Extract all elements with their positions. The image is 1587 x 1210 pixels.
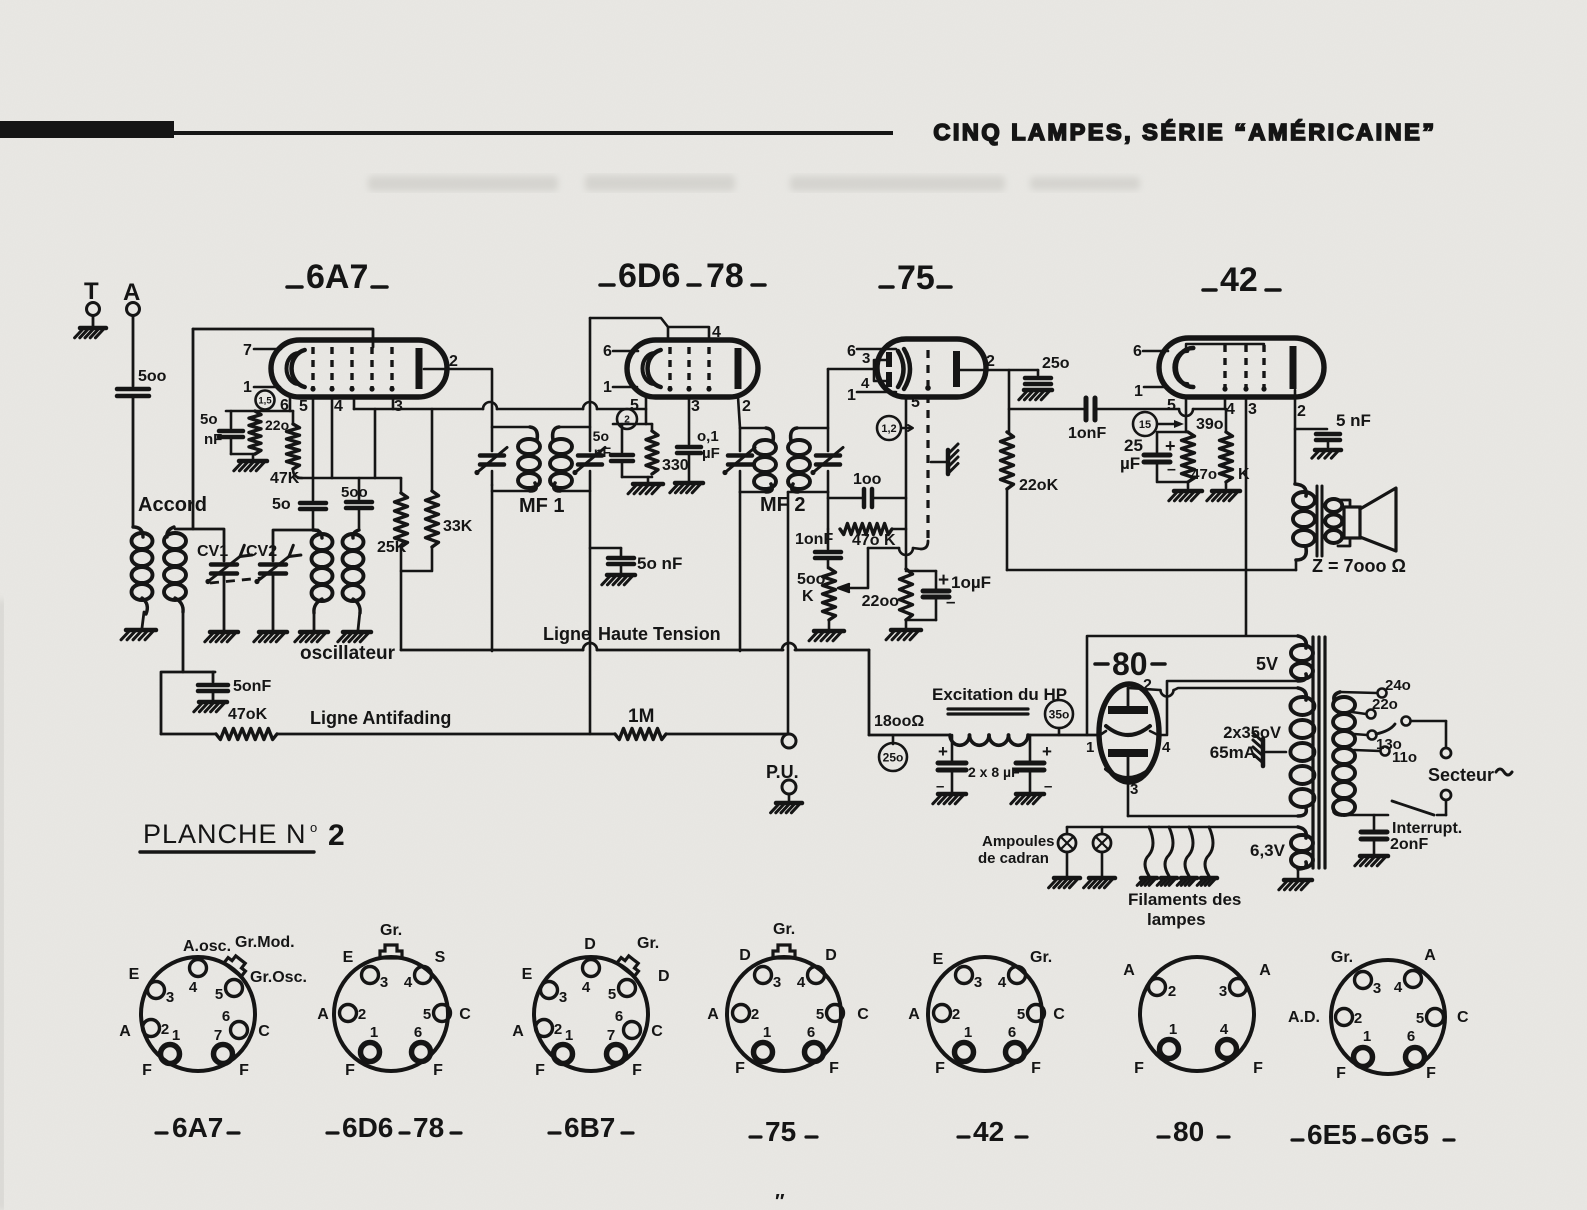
svg-text:A: A: [1259, 962, 1271, 979]
svg-text:F: F: [632, 1062, 642, 1079]
resistor 390 cathode: [1182, 432, 1195, 482]
socket 75: [727, 957, 841, 1071]
svg-text:Gr.: Gr.: [1331, 949, 1353, 966]
svg-text:2: 2: [986, 353, 995, 370]
top rule thin segment: [174, 131, 893, 135]
svg-text:5 nF: 5 nF: [1336, 411, 1371, 430]
svg-text:A: A: [317, 1006, 329, 1023]
svg-text:2: 2: [742, 398, 751, 415]
svg-text:F: F: [345, 1062, 355, 1079]
power transformer primary winding: [1334, 692, 1340, 700]
svg-text:5: 5: [423, 1006, 431, 1023]
capacitor 20nF mains: [1373, 815, 1376, 829]
rail MF2 secondary bottom: [788, 491, 828, 494]
svg-text:5: 5: [215, 986, 223, 1003]
rectifier output wire: [1059, 734, 1100, 736]
svg-text:6G5: 6G5: [1376, 1119, 1429, 1150]
tube 42: [1159, 338, 1324, 397]
svg-text:2onF: 2onF: [1390, 836, 1428, 853]
svg-text:o,1: o,1: [697, 428, 719, 445]
svg-text:P.U.: P.U.: [766, 762, 799, 782]
svg-text:2: 2: [1297, 403, 1306, 420]
svg-text:11o: 11o: [1392, 749, 1417, 766]
pin3 wire to HV bottom: [1127, 780, 1130, 816]
svg-text:Filaments des: Filaments des: [1128, 890, 1241, 909]
svg-text:5o nF: 5o nF: [637, 554, 682, 573]
socket 6B7: [534, 957, 648, 1071]
coupling line to 42: [1009, 408, 1083, 411]
rail MF1 primary bottom: [492, 490, 531, 493]
rail MF2 secondary top: [796, 427, 828, 430]
wire 47K to rail 478: [293, 469, 302, 478]
capacitor 10uF electrolytic: [906, 570, 936, 573]
svg-text:C: C: [459, 1006, 471, 1023]
svg-text:C: C: [857, 1006, 869, 1023]
svg-text:1: 1: [763, 1024, 771, 1041]
svg-text:47oK: 47oK: [228, 706, 268, 723]
svg-text:2 x 8 µF: 2 x 8 µF: [968, 764, 1020, 780]
output transformer secondary: [1325, 499, 1342, 512]
svg-text:6E5: 6E5: [1307, 1119, 1357, 1150]
svg-text:3: 3: [166, 989, 174, 1006]
plate bottom 80: [1108, 749, 1148, 757]
svg-text:A.osc.: A.osc.: [183, 938, 231, 955]
ground 2200: [905, 620, 908, 628]
svg-text:78: 78: [706, 257, 744, 295]
svg-text:F: F: [829, 1060, 839, 1077]
svg-text:MF 2: MF 2: [760, 494, 806, 516]
output transformer primary: [1295, 484, 1306, 496]
tube 75: [877, 339, 986, 397]
svg-text:6: 6: [615, 1008, 623, 1025]
ground PU: [776, 801, 802, 806]
svg-text:6,3V: 6,3V: [1250, 841, 1286, 860]
svg-text:µF: µF: [702, 445, 720, 462]
svg-text:4: 4: [582, 979, 591, 996]
svg-text:1: 1: [1169, 1021, 1177, 1038]
svg-text:A: A: [1123, 962, 1135, 979]
svg-text:25o: 25o: [1042, 355, 1070, 372]
socket 6A7: [141, 957, 255, 1071]
tap 220: [1352, 712, 1366, 714]
svg-text:Gr.: Gr.: [1030, 949, 1052, 966]
coil Accord secondary: [167, 527, 174, 537]
wire 42 cathode down: [1185, 397, 1188, 432]
svg-text:F: F: [142, 1062, 152, 1079]
svg-text:5o: 5o: [593, 428, 609, 444]
filament supply line: [1067, 826, 1298, 829]
label socket 42: [958, 1135, 969, 1138]
trimmer MF2 primary: [739, 428, 742, 451]
resistor 2200 cathode 75: [905, 548, 907, 569]
svg-text:4: 4: [404, 974, 413, 991]
ground 500K: [828, 620, 831, 629]
svg-text:K: K: [802, 588, 814, 605]
wire diode line to 75: [828, 368, 874, 371]
label tube 6D6 78: [600, 283, 614, 287]
label socket 80: [1158, 1135, 1169, 1138]
wire screen pin3 down: [1245, 397, 1248, 635]
cathode 75: [898, 351, 904, 387]
svg-text:3: 3: [1373, 980, 1381, 997]
svg-text:1: 1: [1134, 383, 1143, 400]
selector wiper: [1376, 724, 1395, 734]
ground cathode 6D6: [633, 482, 663, 487]
capacitor 2x8uF left: [951, 735, 954, 760]
svg-text:F: F: [535, 1062, 545, 1079]
svg-text:E: E: [343, 949, 354, 966]
HT bus ligne haute tension: [401, 649, 583, 652]
svg-text:F: F: [1134, 1060, 1144, 1077]
svg-text:Excitation du HP: Excitation du HP: [932, 685, 1067, 704]
svg-text:6A7: 6A7: [172, 1112, 223, 1143]
svg-text:4: 4: [334, 398, 343, 415]
svg-text:3: 3: [1130, 781, 1138, 798]
output transformer core: [1316, 486, 1319, 556]
mains terminal bottom: [1441, 790, 1451, 800]
svg-text:1: 1: [565, 1027, 573, 1044]
svg-text:–: –: [1167, 461, 1176, 478]
ground oscillator left: [300, 630, 328, 635]
tube 6A7: [271, 340, 447, 397]
svg-text:7: 7: [214, 1027, 222, 1044]
svg-text:T: T: [84, 278, 99, 305]
ground under T: [92, 316, 95, 327]
svg-text:nF: nF: [594, 444, 612, 460]
svg-text:4: 4: [797, 974, 806, 991]
svg-text:1: 1: [172, 1027, 180, 1044]
svg-text:47K: 47K: [270, 470, 300, 487]
wire 25K 33K common to HT bus: [401, 547, 432, 571]
ground CV2: [259, 630, 287, 635]
rail MF1 secondary bottom: [559, 490, 590, 493]
ground 0.1uF: [675, 481, 703, 486]
svg-text:1onF: 1onF: [1068, 425, 1106, 442]
svg-text:1: 1: [603, 379, 612, 396]
wire A down to C500: [132, 316, 135, 386]
svg-text:F: F: [433, 1062, 443, 1079]
svg-text:5: 5: [1167, 397, 1176, 414]
svg-text:+: +: [1042, 742, 1052, 761]
svg-text:6: 6: [222, 1008, 230, 1025]
capacitor 50nF HT decoupling: [590, 547, 621, 550]
svg-text:3: 3: [691, 398, 700, 415]
mains terminal top: [1441, 748, 1451, 758]
wire CV1 to ground: [223, 574, 226, 630]
svg-text:3: 3: [1219, 983, 1227, 1000]
svg-text:6: 6: [603, 343, 612, 360]
grid box wire 6D6: [590, 318, 668, 327]
svg-text:+: +: [938, 742, 948, 761]
svg-text:6D6: 6D6: [342, 1112, 393, 1143]
wire 220K to B+ line: [1006, 489, 1009, 570]
svg-text:–: –: [946, 592, 955, 611]
wire osc left to ground: [313, 611, 316, 630]
rail oscillator grid y478: [298, 477, 401, 480]
svg-text:25: 25: [1124, 436, 1143, 455]
svg-text:Gr.: Gr.: [773, 921, 795, 938]
rail MF2 primary bottom: [740, 491, 767, 494]
diode plates bracket 75: [874, 360, 887, 381]
svg-text:Ligne Antifading: Ligne Antifading: [310, 708, 451, 728]
svg-text:2: 2: [161, 1021, 169, 1038]
tube 80 rectifier: [1099, 684, 1159, 782]
svg-text:A: A: [1424, 947, 1436, 964]
rail MF1 secondary top: [558, 426, 590, 429]
svg-text:Accord: Accord: [138, 494, 207, 516]
svg-text:7: 7: [607, 1027, 615, 1044]
svg-text:1: 1: [243, 379, 252, 396]
power transformer HV winding: [1298, 688, 1306, 700]
terminal PU top: [782, 734, 796, 748]
svg-text:1: 1: [1086, 739, 1094, 756]
svg-text:+: +: [938, 570, 949, 591]
svg-text:nF: nF: [204, 431, 222, 448]
svg-text:de cadran: de cadran: [978, 850, 1049, 867]
capacitor 5nF plate: [1295, 428, 1327, 431]
svg-text:3: 3: [773, 974, 781, 991]
wire Accord secondary top to grid line: [175, 329, 193, 529]
svg-text:4: 4: [1394, 979, 1403, 996]
suppressor tie 42: [1186, 344, 1264, 349]
svg-text:A: A: [707, 1006, 719, 1023]
svg-text:6: 6: [1008, 1024, 1016, 1041]
ground oscillator right: [343, 630, 371, 635]
resistor 220K: [1001, 432, 1014, 489]
svg-text:5: 5: [608, 986, 616, 1003]
svg-text:F: F: [735, 1060, 745, 1077]
ground side symbol 75 grid return: [931, 461, 946, 464]
svg-text:D: D: [584, 936, 596, 953]
svg-text:330: 330: [662, 457, 689, 474]
label tube 75: [880, 285, 893, 289]
page left edge scan shadow: [0, 600, 4, 1210]
svg-text:4: 4: [1226, 401, 1235, 418]
svg-text:35o: 35o: [1049, 707, 1070, 721]
coil MF2 primary: [766, 428, 773, 441]
svg-text:CV1: CV1: [197, 543, 228, 560]
wire 6D6 plate pin2 down: [738, 397, 740, 428]
svg-text:3: 3: [559, 989, 567, 1006]
tube filaments arcs: [1145, 827, 1153, 876]
svg-text:4: 4: [861, 375, 870, 392]
ground 390: [1187, 482, 1190, 488]
svg-text:4: 4: [1162, 739, 1171, 756]
wire CV2 to ground: [272, 574, 275, 630]
svg-text:Gr.Osc.: Gr.Osc.: [250, 969, 307, 986]
svg-text:1M: 1M: [628, 706, 654, 727]
circled value 1,5: [256, 391, 275, 410]
wire MF1 secondary return to antifading line: [589, 471, 592, 734]
svg-text:1,5: 1,5: [258, 395, 272, 406]
svg-text:65mA: 65mA: [1210, 743, 1256, 762]
svg-text:6: 6: [847, 343, 856, 360]
svg-text:5o: 5o: [200, 411, 218, 428]
svg-text:1: 1: [964, 1024, 972, 1041]
svg-text:C: C: [258, 1023, 270, 1040]
svg-text:42: 42: [973, 1116, 1004, 1147]
cathode RC bottom rail: [622, 476, 652, 479]
coil MF2 secondary: [791, 428, 797, 441]
svg-text:F: F: [1031, 1060, 1041, 1077]
svg-text:Z = 7ooo Ω: Z = 7ooo Ω: [1312, 556, 1406, 576]
wire CV2 top to oscillator rail: [273, 530, 318, 561]
svg-text:4: 4: [189, 979, 198, 996]
coil oscillator right winding: [353, 530, 359, 538]
svg-text:lampes: lampes: [1147, 910, 1206, 929]
gang dashed link CV1-CV2: [210, 578, 262, 583]
ground Accord primary: [126, 628, 156, 633]
svg-text:5: 5: [911, 394, 920, 411]
svg-text:75: 75: [765, 1116, 796, 1147]
svg-text:F: F: [239, 1062, 249, 1079]
svg-text:2: 2: [554, 1021, 562, 1038]
svg-text:18ooΩ: 18ooΩ: [874, 713, 924, 730]
resistor 470K diode load: [827, 492, 830, 529]
wire 50pF to osc coil: [312, 509, 315, 530]
svg-text:2: 2: [1354, 1010, 1362, 1027]
svg-text:A.D.: A.D.: [1288, 1009, 1320, 1026]
ground bias 6A7: [239, 459, 267, 464]
wire C500 to Accord primary: [132, 396, 135, 527]
svg-text:K: K: [1238, 466, 1250, 483]
svg-text:24o: 24o: [1385, 677, 1411, 694]
svg-text:47o K: 47o K: [852, 532, 896, 549]
svg-text:6B7: 6B7: [564, 1112, 615, 1143]
svg-text:80: 80: [1173, 1116, 1204, 1147]
svg-text:42: 42: [1220, 261, 1258, 299]
label socket 6E5 6G5: [1292, 1138, 1303, 1141]
svg-text:2: 2: [449, 353, 458, 370]
socket 42: [928, 957, 1042, 1071]
svg-text:F: F: [1336, 1065, 1346, 1082]
svg-text:5oo: 5oo: [138, 368, 167, 385]
rail MF2 primary top: [740, 427, 766, 430]
ground 50nF decoupling: [607, 573, 635, 578]
wire 6,3V to ground: [1297, 869, 1300, 878]
svg-text:4: 4: [1220, 1021, 1229, 1038]
wire screen 0.1uF: [688, 397, 691, 444]
svg-text:3: 3: [394, 398, 403, 415]
svg-text:25K: 25K: [377, 539, 407, 556]
svg-text:Interrupt.: Interrupt.: [1392, 820, 1462, 837]
speaker: [1344, 507, 1360, 538]
svg-text:E: E: [933, 951, 944, 968]
svg-text:3: 3: [1248, 401, 1257, 418]
ghost print-through band: [368, 175, 1140, 191]
svg-text:47o: 47o: [1191, 466, 1217, 483]
svg-text:A: A: [512, 1023, 524, 1040]
svg-text:5: 5: [1416, 1010, 1424, 1027]
svg-text:6A7: 6A7: [306, 258, 368, 296]
svg-text:1,2: 1,2: [881, 423, 896, 435]
svg-text:E: E: [129, 966, 140, 983]
svg-text:2: 2: [358, 1006, 366, 1023]
wire pin5 down to 50pF: [312, 397, 315, 478]
resistor 25K: [400, 478, 403, 493]
trimmer MF1 primary: [480, 453, 504, 458]
svg-text:CINQ LAMPES, SÉRIE “AMÉRICAINE: CINQ LAMPES, SÉRIE “AMÉRICAINE”: [933, 118, 1436, 145]
svg-text:3: 3: [974, 974, 982, 991]
svg-text:6: 6: [1133, 343, 1142, 360]
wire Accord secondary bottom to antifading: [161, 610, 183, 734]
svg-text:o: o: [310, 820, 317, 835]
wire pin3 to bus: [353, 397, 356, 409]
capacitor 10nF coupling: [1084, 398, 1089, 420]
wire to ground Accord primary: [142, 612, 144, 628]
ground 50nF antifading: [199, 700, 227, 705]
circled 350: [1045, 700, 1073, 728]
svg-text:1oµF: 1oµF: [951, 573, 991, 592]
bias rail 6A7: [226, 410, 293, 413]
svg-text:5onF: 5onF: [233, 678, 271, 695]
resistor 330 cathode: [651, 424, 654, 431]
svg-text:C: C: [651, 1023, 663, 1040]
label socket 75: [750, 1135, 761, 1138]
svg-text:22oK: 22oK: [1019, 477, 1059, 494]
svg-text:MF 1: MF 1: [519, 495, 565, 517]
wire 6D6 cathode pin5: [645, 397, 648, 424]
tap 130: [1354, 734, 1367, 735]
svg-text:25o: 25o: [883, 750, 904, 764]
wire MF2 secondary bottom to PU: [787, 492, 790, 734]
svg-text:15: 15: [1139, 419, 1151, 431]
label tube 80: [1095, 662, 1108, 666]
svg-text:″: ″: [775, 1191, 785, 1210]
coil Accord primary: [133, 527, 143, 537]
variable capacitor CV2: [260, 562, 286, 567]
label tube 6A7: [287, 285, 302, 289]
svg-text:oscillateur: oscillateur: [300, 643, 396, 664]
primary bottom wire: [1341, 814, 1342, 816]
svg-text:Secteur: Secteur: [1428, 765, 1494, 785]
svg-text:µF: µF: [1120, 454, 1140, 473]
label socket 6D6 78: [327, 1131, 338, 1134]
socket 6D6 78: [334, 957, 448, 1071]
resistor 33K: [431, 409, 434, 491]
wire osc right to ground: [358, 611, 360, 630]
label socket 6A7: [156, 1131, 167, 1134]
grid dashed 75: [926, 350, 929, 541]
wire pin6 to bias rail: [289, 397, 292, 411]
dial lamp 2: [1101, 827, 1104, 834]
svg-text:5oo: 5oo: [797, 571, 826, 588]
svg-text:5: 5: [1017, 1006, 1025, 1023]
variable capacitor CV1: [211, 562, 237, 567]
svg-text:6D6: 6D6: [618, 257, 680, 295]
coil MF1 primary: [530, 427, 537, 440]
svg-text:7: 7: [243, 342, 252, 359]
top rule thick segment: [0, 121, 174, 138]
circled 250: [892, 735, 895, 744]
svg-text:S: S: [435, 949, 446, 966]
wire 42 plate down: [1294, 390, 1297, 484]
svg-text:Gr.: Gr.: [637, 935, 659, 952]
svg-text:78: 78: [413, 1112, 444, 1143]
circled value 1,2 with arrow: [877, 416, 901, 440]
terminal PU bottom: [782, 780, 796, 794]
svg-text:75: 75: [897, 259, 935, 297]
wire HT bus down to filter: [868, 650, 871, 735]
svg-text:C: C: [1457, 1009, 1469, 1026]
grid staple 6D6: [668, 327, 709, 341]
svg-text:5o: 5o: [272, 496, 291, 513]
svg-text:–: –: [936, 778, 944, 795]
trimmer MF2 secondary: [827, 369, 830, 451]
svg-text:D: D: [739, 947, 751, 964]
svg-text:C: C: [1053, 1006, 1065, 1023]
svg-text:22o: 22o: [1372, 696, 1398, 713]
